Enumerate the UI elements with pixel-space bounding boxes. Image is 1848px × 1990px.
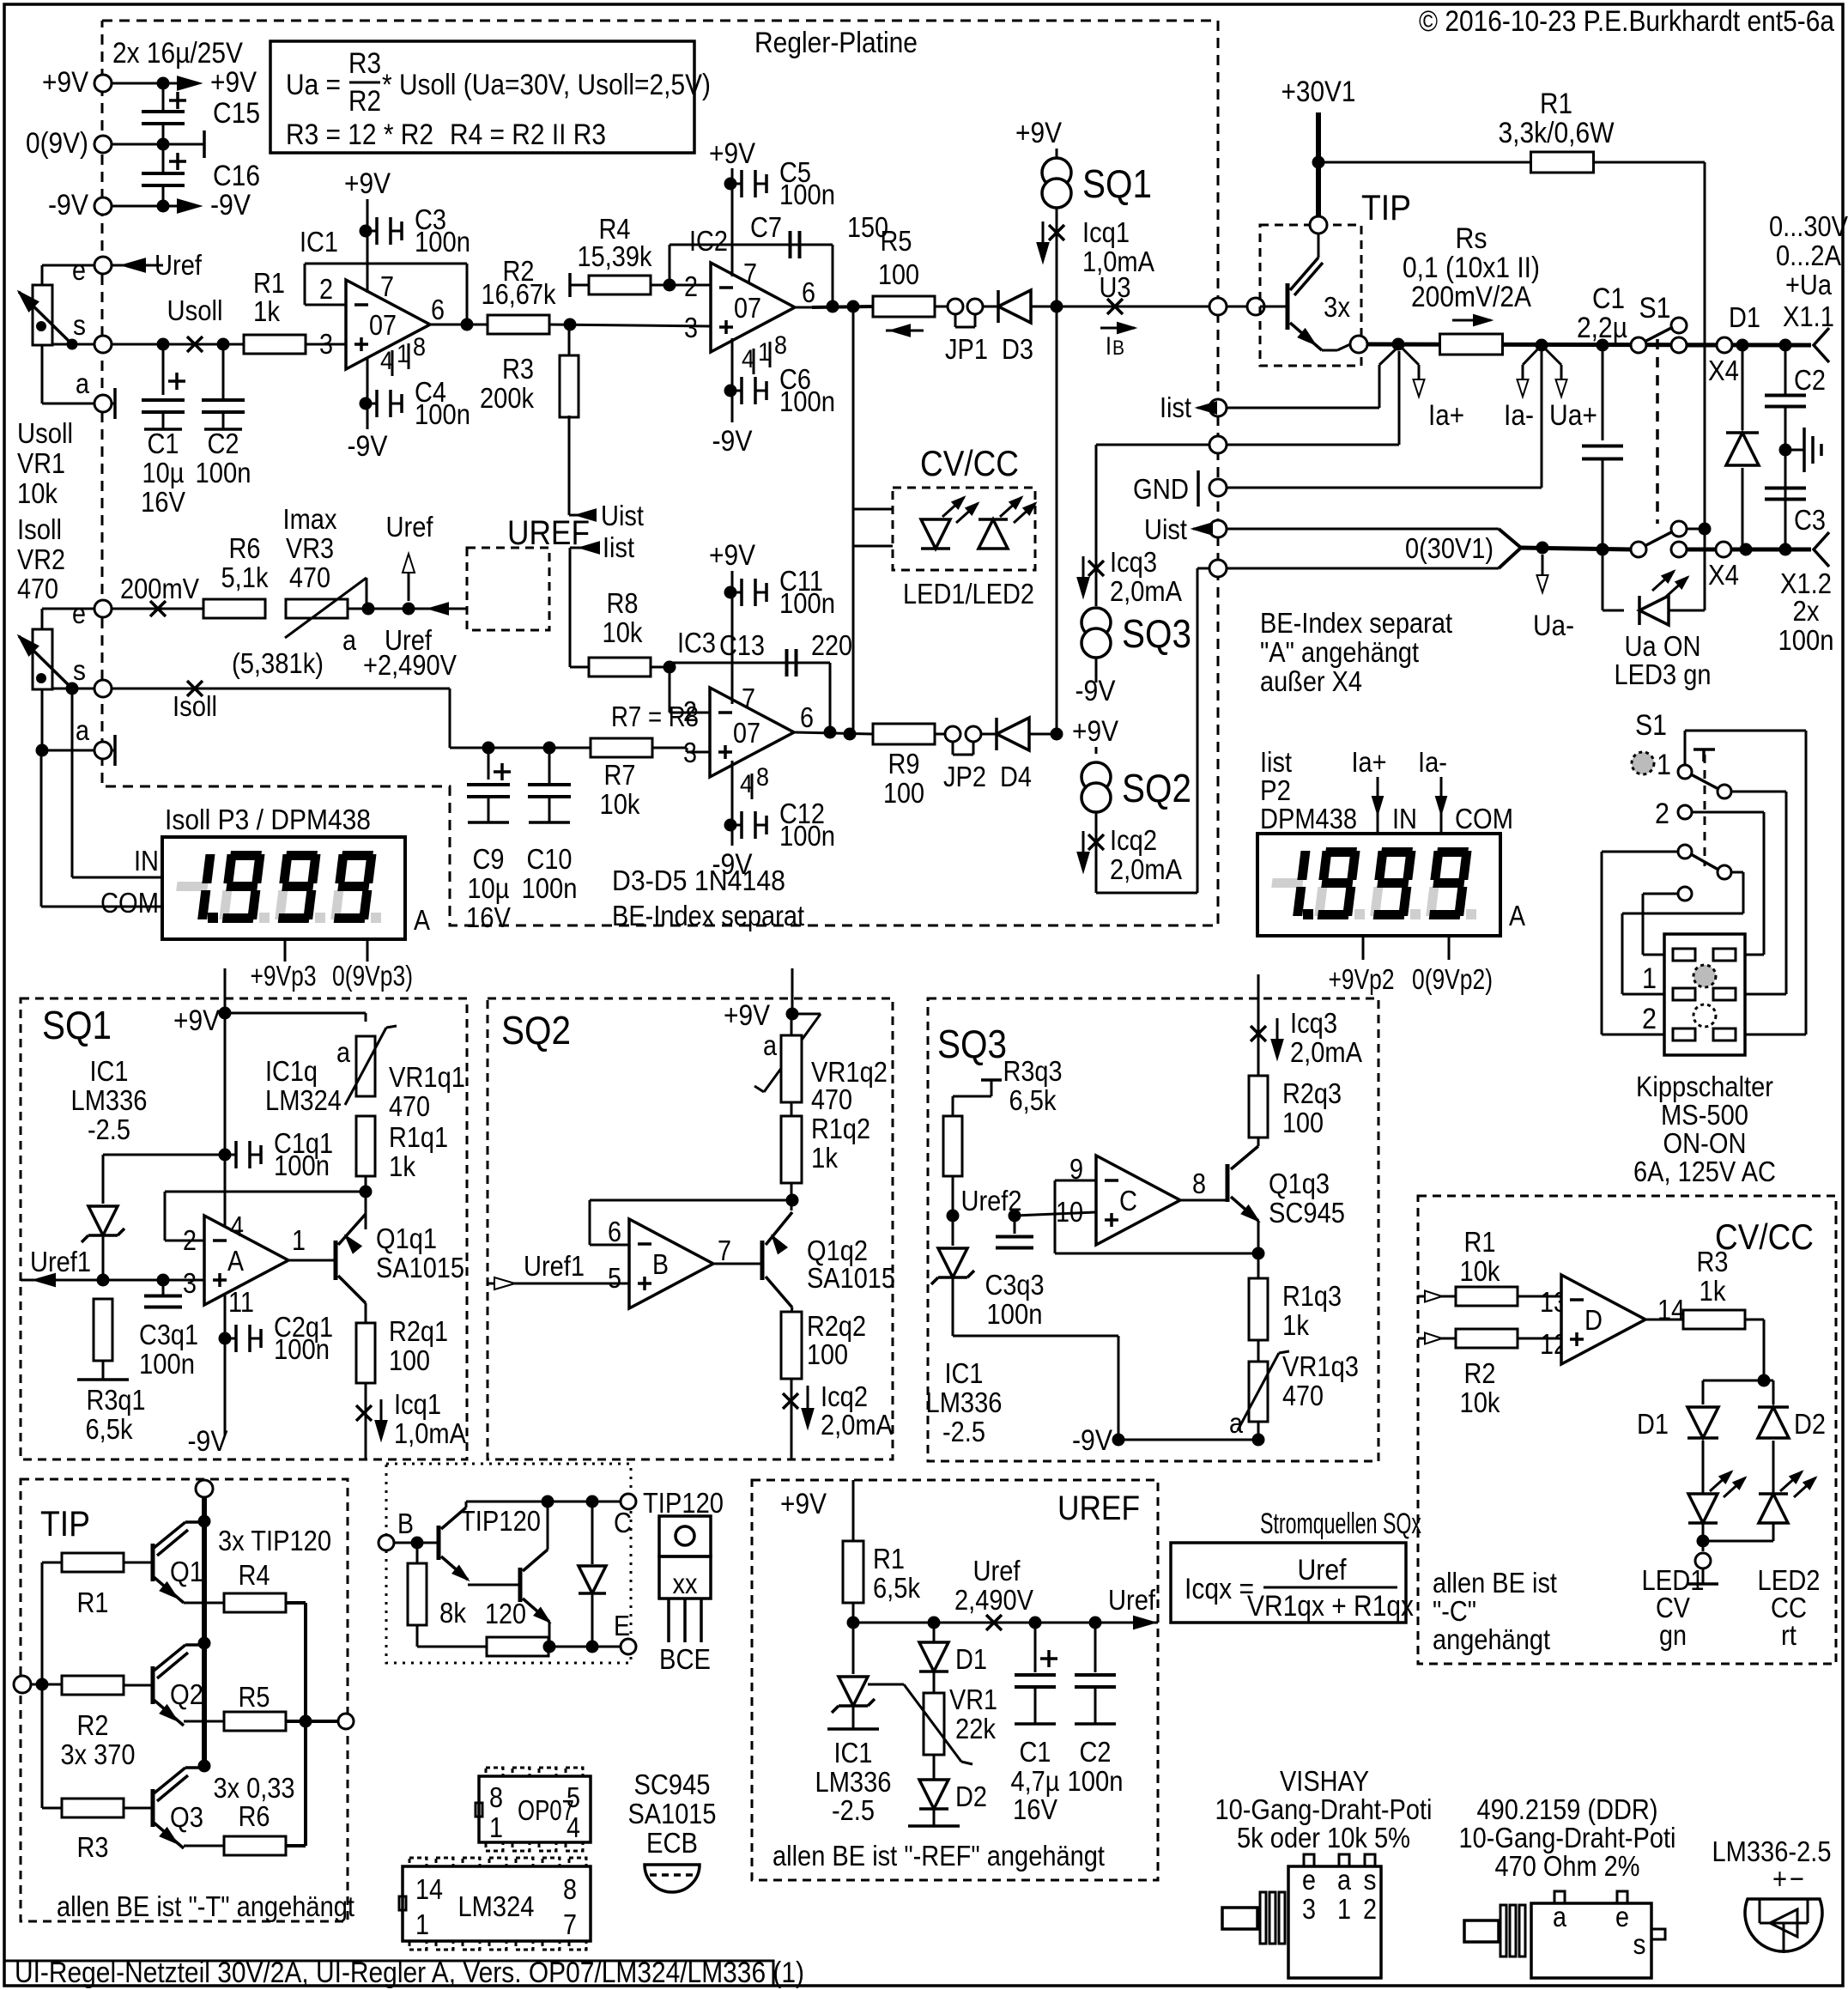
svg-text:−: −: [1790, 1863, 1804, 1896]
svg-text:C: C: [1119, 1185, 1137, 1216]
svg-text:-9V: -9V: [188, 1425, 228, 1458]
svg-text:Iist: Iist: [603, 531, 634, 563]
svg-text:1: 1: [1657, 749, 1671, 781]
svg-text:Icq1: Icq1: [1082, 216, 1130, 248]
svg-text:VR1q1: VR1q1: [389, 1061, 465, 1093]
svg-text:2,0mA: 2,0mA: [1110, 853, 1182, 885]
svg-text:Icq2: Icq2: [1110, 824, 1157, 856]
svg-text:8: 8: [756, 763, 769, 792]
svg-text:R2q2: R2q2: [807, 1310, 866, 1342]
svg-text:4: 4: [230, 1210, 244, 1242]
svg-text:100n: 100n: [987, 1298, 1043, 1330]
svg-text:200mV/2A: 200mV/2A: [1411, 281, 1531, 313]
svg-text:Q1q3: Q1q3: [1269, 1168, 1330, 1199]
svg-text:LED1/LED2: LED1/LED2: [903, 578, 1034, 610]
svg-text:3x 0,33: 3x 0,33: [214, 1772, 295, 1804]
svg-text:C2: C2: [1794, 364, 1826, 396]
svg-text:6: 6: [608, 1216, 621, 1247]
svg-text:CV/CC: CV/CC: [920, 443, 1019, 483]
svg-text:e: e: [1302, 1864, 1316, 1896]
svg-text:TIP: TIP: [40, 1503, 90, 1544]
svg-text:100n: 100n: [1068, 1765, 1124, 1797]
svg-text:1,0mA: 1,0mA: [394, 1417, 466, 1449]
svg-text:R1: R1: [1464, 1226, 1496, 1258]
svg-text:1: 1: [415, 1908, 429, 1940]
svg-text:-2.5: -2.5: [942, 1416, 985, 1447]
svg-text:100n: 100n: [779, 587, 835, 619]
svg-text:Isoll: Isoll: [17, 513, 62, 545]
svg-text:UI-Regel-Netzteil 30V/2A, UI-R: UI-Regel-Netzteil 30V/2A, UI-Regler A, V…: [15, 1957, 804, 1989]
svg-text:470: 470: [389, 1090, 430, 1122]
svg-text:6: 6: [800, 701, 814, 733]
svg-text:X1.1: X1.1: [1783, 300, 1834, 332]
svg-text:D2: D2: [955, 1781, 987, 1812]
svg-text:2,0mA: 2,0mA: [1110, 575, 1182, 607]
svg-text:R6: R6: [239, 1800, 270, 1832]
svg-text:SA1015: SA1015: [807, 1262, 895, 1294]
svg-text:16V: 16V: [1013, 1793, 1057, 1825]
svg-text:SC945: SC945: [634, 1769, 711, 1800]
svg-text:2,2µ: 2,2µ: [1577, 312, 1627, 344]
svg-text:0(9Vp2): 0(9Vp2): [1412, 963, 1493, 995]
svg-text:C1: C1: [1592, 282, 1625, 315]
svg-text:außer X4: außer X4: [1260, 665, 1362, 697]
svg-text:Isoll P3 / DPM438: Isoll P3 / DPM438: [165, 804, 371, 835]
svg-text:4,7µ: 4,7µ: [1011, 1765, 1060, 1797]
svg-text:200k: 200k: [480, 382, 534, 414]
svg-text:SQ1: SQ1: [42, 1003, 112, 1047]
svg-text:3,3k/0,6W: 3,3k/0,6W: [1499, 117, 1615, 149]
svg-text:100n: 100n: [779, 385, 835, 417]
svg-text:R3 = 12 * R2: R3 = 12 * R2: [286, 118, 433, 151]
svg-text:CV/CC: CV/CC: [1715, 1216, 1814, 1257]
svg-text:10k: 10k: [600, 788, 640, 820]
svg-text:1: 1: [292, 1224, 306, 1256]
svg-text:X4: X4: [1708, 559, 1739, 591]
svg-text:SA1015: SA1015: [376, 1252, 464, 1283]
svg-text:+9V: +9V: [724, 999, 770, 1032]
svg-text:Icqx =: Icqx =: [1185, 1573, 1254, 1605]
svg-text:TIP: TIP: [1361, 187, 1411, 228]
svg-text:+9Vp3: +9Vp3: [251, 960, 317, 992]
svg-text:3x TIP120: 3x TIP120: [218, 1525, 331, 1556]
svg-text:+9V: +9V: [210, 66, 257, 99]
svg-text:-9V: -9V: [712, 848, 753, 881]
svg-text:Ua-: Ua-: [1533, 610, 1574, 642]
svg-text:VR1qx + R1qx: VR1qx + R1qx: [1247, 1590, 1414, 1623]
svg-text:+9V: +9V: [42, 66, 88, 99]
svg-text:+9V: +9V: [780, 1488, 827, 1520]
svg-text:-9V: -9V: [1075, 675, 1116, 707]
svg-text:3: 3: [183, 1267, 197, 1299]
svg-text:Uref: Uref: [1108, 1584, 1156, 1616]
svg-text:R6: R6: [229, 532, 261, 564]
svg-text:C7: C7: [750, 211, 782, 243]
svg-text:8: 8: [413, 333, 426, 361]
svg-text:Uref: Uref: [973, 1555, 1021, 1587]
svg-text:+9V: +9V: [1015, 117, 1062, 149]
svg-text:Icq3: Icq3: [1290, 1007, 1337, 1039]
svg-text:R2: R2: [77, 1709, 109, 1741]
svg-text:+Ua: +Ua: [1785, 269, 1833, 300]
svg-text:Isoll: Isoll: [173, 690, 217, 722]
svg-text:07: 07: [734, 292, 761, 324]
svg-text:C3q3: C3q3: [985, 1269, 1045, 1301]
svg-text:Iist: Iist: [1260, 746, 1292, 778]
svg-text:-9V: -9V: [1072, 1424, 1112, 1457]
svg-text:R1q2: R1q2: [811, 1113, 870, 1144]
svg-text:a: a: [1553, 1901, 1567, 1932]
svg-text:R1: R1: [253, 267, 285, 299]
svg-text:a: a: [763, 1029, 778, 1061]
svg-text:1: 1: [1337, 1893, 1351, 1925]
svg-text:10-Gang-Draht-Poti: 10-Gang-Draht-Poti: [1459, 1822, 1676, 1853]
svg-text:B: B: [397, 1508, 414, 1539]
svg-text:UREF: UREF: [507, 514, 590, 552]
svg-text:s: s: [73, 654, 86, 686]
svg-text:07: 07: [733, 717, 760, 749]
svg-text:a: a: [336, 1036, 351, 1068]
svg-text:D1: D1: [1729, 301, 1760, 333]
svg-text:C3: C3: [1794, 504, 1826, 536]
svg-text:470: 470: [17, 573, 58, 604]
svg-text:Usoll: Usoll: [167, 294, 223, 326]
svg-text:R3: R3: [502, 353, 534, 385]
svg-text:e: e: [72, 254, 86, 286]
svg-text:100n: 100n: [522, 872, 578, 904]
svg-text:3: 3: [1302, 1893, 1316, 1925]
svg-text:8: 8: [563, 1873, 577, 1905]
svg-text:R3q1: R3q1: [87, 1384, 146, 1416]
svg-text:IC3: IC3: [677, 627, 716, 658]
svg-text:7: 7: [743, 258, 757, 289]
svg-text:1,0mA: 1,0mA: [1082, 246, 1154, 277]
svg-text:ECB: ECB: [646, 1827, 698, 1859]
svg-text:xx: xx: [673, 1568, 698, 1599]
svg-text:C3q1: C3q1: [139, 1319, 198, 1350]
svg-text:C16: C16: [213, 160, 260, 192]
svg-text:s: s: [1364, 1864, 1377, 1896]
svg-text:6,5k: 6,5k: [873, 1572, 920, 1604]
svg-text:7: 7: [742, 683, 755, 714]
svg-text:2: 2: [183, 1224, 197, 1256]
svg-text:100n: 100n: [779, 820, 835, 852]
svg-text:IC1: IC1: [90, 1055, 129, 1087]
svg-text:IC1: IC1: [300, 226, 338, 258]
svg-text:LED3 gn: LED3 gn: [1615, 658, 1712, 690]
svg-text:10-Gang-Draht-Poti: 10-Gang-Draht-Poti: [1215, 1793, 1433, 1825]
svg-text:GND: GND: [1133, 473, 1189, 505]
svg-text:Icq1: Icq1: [394, 1388, 441, 1420]
svg-text:2,0mA: 2,0mA: [1290, 1036, 1362, 1068]
svg-text:R2: R2: [348, 85, 381, 118]
svg-text:490.2159 (DDR): 490.2159 (DDR): [1477, 1793, 1658, 1825]
svg-text:C1: C1: [148, 428, 179, 459]
svg-text:1k: 1k: [1700, 1275, 1726, 1307]
svg-text:Uist: Uist: [601, 500, 644, 531]
svg-text:-9V: -9V: [48, 189, 88, 221]
svg-text:Ia+: Ia+: [1428, 399, 1464, 432]
svg-text:IC1: IC1: [834, 1737, 873, 1769]
svg-text:10k: 10k: [1460, 1255, 1500, 1287]
svg-text:VR1q3: VR1q3: [1282, 1350, 1359, 1382]
svg-text:0(30V1): 0(30V1): [1405, 532, 1494, 564]
svg-text:"-C": "-C": [1433, 1595, 1476, 1627]
svg-text:8k: 8k: [439, 1597, 466, 1629]
svg-text:D: D: [1584, 1304, 1603, 1336]
svg-text:a: a: [76, 714, 90, 746]
svg-text:LM336: LM336: [926, 1386, 1003, 1418]
svg-text:a: a: [76, 367, 90, 399]
svg-text:+9Vp2: +9Vp2: [1329, 963, 1395, 995]
svg-text:allen BE ist "-REF" angehängt: allen BE ist "-REF" angehängt: [773, 1840, 1105, 1872]
svg-text:R5: R5: [239, 1681, 270, 1713]
svg-text:B: B: [1112, 337, 1124, 360]
svg-text:16,67k: 16,67k: [482, 278, 556, 310]
svg-text:+9V: +9V: [344, 167, 391, 200]
svg-text:5: 5: [608, 1262, 621, 1294]
svg-text:5,1k: 5,1k: [221, 561, 269, 593]
svg-text:10: 10: [1056, 1196, 1083, 1228]
svg-text:Uref1: Uref1: [524, 1250, 585, 1282]
svg-text:2,0mA: 2,0mA: [821, 1409, 893, 1441]
svg-text:D1: D1: [1637, 1408, 1669, 1440]
svg-text:7: 7: [563, 1908, 577, 1940]
svg-text:100n: 100n: [139, 1348, 195, 1380]
svg-text:B: B: [652, 1248, 669, 1280]
svg-text:1: 1: [489, 1811, 503, 1843]
svg-text:VR1: VR1: [949, 1684, 997, 1715]
svg-text:6: 6: [802, 276, 815, 308]
svg-text:100: 100: [883, 777, 924, 809]
svg-text:A: A: [414, 904, 430, 936]
svg-text:0(9Vp3): 0(9Vp3): [332, 960, 413, 992]
svg-text:4: 4: [567, 1811, 580, 1843]
svg-text:allen BE ist: allen BE ist: [1433, 1567, 1557, 1599]
svg-text:1: 1: [1642, 962, 1657, 995]
svg-text:200mV: 200mV: [120, 573, 199, 604]
svg-text:0,1 (10x1 II): 0,1 (10x1 II): [1403, 252, 1540, 284]
svg-text:R2: R2: [1464, 1357, 1496, 1389]
svg-text:Icq3: Icq3: [1110, 546, 1157, 578]
svg-text:2,490V: 2,490V: [954, 1584, 1033, 1616]
svg-text:6A, 125V AC: 6A, 125V AC: [1633, 1156, 1776, 1187]
svg-text:SQ2: SQ2: [1122, 766, 1191, 810]
svg-text:SA1015: SA1015: [628, 1798, 717, 1829]
svg-text:"A" angehängt: "A" angehängt: [1260, 636, 1419, 668]
svg-text:470 Ohm 2%: 470 Ohm 2%: [1495, 1850, 1640, 1882]
svg-text:3x 370: 3x 370: [61, 1738, 136, 1770]
svg-text:7: 7: [718, 1235, 731, 1266]
svg-text:100n: 100n: [779, 179, 835, 210]
svg-text:I: I: [1106, 332, 1112, 361]
svg-text:R7: R7: [604, 759, 636, 791]
svg-text:C: C: [614, 1507, 632, 1538]
svg-text:DPM438: DPM438: [1260, 803, 1357, 834]
svg-text:X4: X4: [1708, 355, 1739, 386]
svg-text:COM: COM: [1455, 803, 1513, 834]
svg-text:0(9V): 0(9V): [26, 127, 88, 160]
svg-text:+9V: +9V: [709, 539, 755, 572]
svg-text:16V: 16V: [466, 901, 511, 933]
svg-text:2: 2: [319, 273, 333, 305]
svg-text:100n: 100n: [415, 226, 470, 258]
svg-text:BCE: BCE: [659, 1643, 711, 1675]
svg-text:R2q1: R2q1: [389, 1315, 448, 1347]
svg-text:a: a: [1337, 1864, 1352, 1896]
svg-text:SC945: SC945: [1269, 1197, 1345, 1229]
svg-text:3: 3: [684, 312, 698, 343]
svg-text:IC2: IC2: [689, 225, 728, 257]
svg-text:0...30V: 0...30V: [1769, 210, 1848, 242]
svg-text:120: 120: [485, 1598, 526, 1629]
svg-text:e: e: [72, 598, 86, 629]
svg-text:470: 470: [1282, 1380, 1324, 1411]
svg-text:R2q3: R2q3: [1282, 1077, 1342, 1109]
svg-text:s: s: [1633, 1928, 1646, 1960]
svg-text:3: 3: [319, 328, 333, 360]
svg-text:Ua ON: Ua ON: [1625, 630, 1701, 662]
svg-text:R1q1: R1q1: [389, 1121, 448, 1153]
svg-text:100: 100: [878, 258, 919, 290]
svg-text:VISHAY: VISHAY: [1280, 1765, 1369, 1797]
svg-text:D2: D2: [1794, 1408, 1826, 1440]
svg-text:Ia+: Ia+: [1352, 746, 1387, 778]
svg-text:Uist: Uist: [1144, 513, 1187, 545]
svg-text:LM324: LM324: [458, 1890, 535, 1922]
svg-text:100: 100: [807, 1338, 848, 1370]
svg-text:R4 = R2 II R3: R4 = R2 II R3: [450, 118, 606, 151]
svg-text:LM324: LM324: [265, 1084, 342, 1116]
svg-text:BE-Index separat: BE-Index separat: [612, 900, 804, 931]
svg-text:-2.5: -2.5: [88, 1113, 130, 1145]
svg-text:Icq2: Icq2: [821, 1380, 868, 1412]
svg-text:R9: R9: [888, 748, 920, 780]
svg-text:S1: S1: [1639, 292, 1671, 325]
svg-text:IN: IN: [1392, 803, 1417, 834]
svg-text:IN: IN: [134, 845, 159, 877]
svg-text:Uref: Uref: [155, 249, 203, 281]
svg-text:Regler-Platine: Regler-Platine: [754, 27, 918, 59]
svg-text:+9V: +9V: [173, 1004, 220, 1037]
svg-text:R3: R3: [77, 1831, 109, 1863]
svg-text:S1: S1: [1635, 709, 1667, 742]
svg-text:1k: 1k: [389, 1150, 415, 1182]
svg-text:P2: P2: [1260, 774, 1291, 806]
svg-text:JP1: JP1: [945, 333, 988, 365]
svg-text:D3-D5 1N4148: D3-D5 1N4148: [612, 865, 785, 896]
svg-text:UREF: UREF: [1057, 1489, 1140, 1527]
svg-text:220: 220: [811, 629, 852, 661]
svg-text:Ua+: Ua+: [1549, 399, 1597, 432]
svg-text:14: 14: [415, 1873, 443, 1905]
svg-text:100n: 100n: [274, 1150, 330, 1181]
svg-text:a: a: [342, 624, 357, 656]
svg-text:-9V: -9V: [712, 425, 753, 458]
svg-text:SQ1: SQ1: [1082, 161, 1152, 206]
svg-text:10k: 10k: [603, 616, 643, 648]
svg-text:R1: R1: [1540, 88, 1572, 120]
svg-text:100n: 100n: [415, 398, 470, 430]
svg-text:100: 100: [1282, 1107, 1324, 1138]
svg-text:5k oder 10k 5%: 5k oder 10k 5%: [1237, 1822, 1410, 1853]
svg-text:ON-ON: ON-ON: [1663, 1127, 1747, 1159]
svg-text:R7 = R8: R7 = R8: [611, 701, 699, 732]
svg-text:rt: rt: [1781, 1619, 1796, 1651]
svg-text:Iist: Iist: [1160, 391, 1191, 423]
svg-text:LM336: LM336: [71, 1084, 148, 1116]
svg-text:Uref2: Uref2: [961, 1185, 1022, 1216]
svg-text:VR3: VR3: [286, 532, 334, 564]
svg-text:Rs: Rs: [1456, 222, 1487, 255]
svg-text:10µ: 10µ: [142, 457, 185, 488]
svg-text:Ia-: Ia-: [1504, 399, 1534, 432]
svg-text:8: 8: [774, 331, 787, 360]
svg-text:2: 2: [1642, 1003, 1657, 1035]
svg-text:10k: 10k: [1460, 1386, 1500, 1418]
svg-text:2: 2: [1363, 1893, 1377, 1925]
svg-text:TIP120: TIP120: [643, 1487, 724, 1519]
svg-text:R1: R1: [873, 1543, 905, 1574]
svg-text:MS-500: MS-500: [1661, 1099, 1748, 1131]
svg-text:8: 8: [1192, 1168, 1206, 1199]
svg-text:Kippschalter: Kippschalter: [1636, 1071, 1773, 1102]
svg-text:10k: 10k: [17, 477, 58, 509]
svg-text:BE-Index separat: BE-Index separat: [1260, 607, 1452, 639]
svg-text:470: 470: [811, 1083, 852, 1115]
svg-text:C2: C2: [208, 428, 239, 459]
svg-text:22k: 22k: [955, 1713, 996, 1744]
svg-text:3x: 3x: [1324, 291, 1350, 323]
svg-text:LM336-2.5: LM336-2.5: [1712, 1835, 1832, 1867]
svg-text:Stromquellen SQx: Stromquellen SQx: [1260, 1508, 1421, 1540]
svg-text:JP2: JP2: [943, 761, 986, 792]
svg-text:C9: C9: [473, 843, 505, 875]
svg-text:C10: C10: [527, 843, 573, 875]
svg-text:07: 07: [369, 309, 397, 341]
svg-text:11: 11: [228, 1286, 254, 1318]
svg-text:-2.5: -2.5: [832, 1794, 875, 1826]
svg-text:C15: C15: [213, 97, 260, 130]
svg-text:Q2: Q2: [170, 1678, 203, 1710]
svg-text:© 2016-10-23 P.E.Burkhardt ent: © 2016-10-23 P.E.Burkhardt ent5-6a: [1419, 5, 1834, 38]
svg-text:R3q3: R3q3: [1003, 1055, 1063, 1087]
svg-text:R1: R1: [77, 1587, 109, 1618]
svg-text:s: s: [73, 309, 86, 341]
svg-text:+9V: +9V: [1072, 715, 1118, 748]
svg-text:Ia-: Ia-: [1418, 746, 1447, 778]
svg-text:Ua =: Ua =: [286, 69, 341, 101]
svg-text:R8: R8: [607, 587, 639, 619]
svg-text:COM: COM: [100, 887, 159, 919]
svg-text:R4: R4: [239, 1559, 270, 1591]
svg-text:VR1: VR1: [17, 447, 65, 479]
svg-text:A: A: [227, 1245, 244, 1277]
svg-text:R5: R5: [881, 225, 912, 257]
svg-text:-9V: -9V: [348, 430, 388, 463]
svg-text:allen BE ist "-T" angehängt: allen BE ist "-T" angehängt: [57, 1890, 354, 1922]
svg-text:Usoll: Usoll: [17, 417, 73, 449]
svg-text:(5,381k): (5,381k): [232, 647, 324, 679]
svg-text:470: 470: [289, 561, 330, 593]
svg-text:100: 100: [389, 1344, 430, 1376]
svg-text:100n: 100n: [196, 457, 251, 488]
svg-text:16V: 16V: [141, 486, 185, 518]
svg-text:6,5k: 6,5k: [1009, 1084, 1057, 1116]
svg-text:C13: C13: [719, 629, 765, 661]
svg-text:7: 7: [380, 270, 394, 302]
svg-text:100n: 100n: [274, 1333, 330, 1365]
